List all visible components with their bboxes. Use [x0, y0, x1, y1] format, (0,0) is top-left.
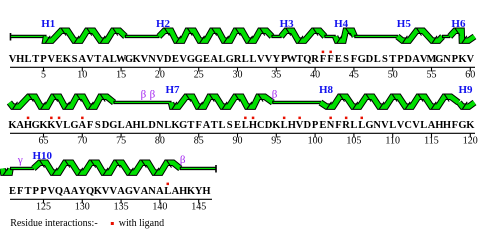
svg-text:β: β [150, 88, 156, 100]
svg-text:β: β [141, 88, 147, 100]
svg-text:with ligand: with ligand [119, 218, 164, 229]
svg-text:VHLTPVEKSAVTALWGKVNVDEVGGEALGR: VHLTPVEKSAVTALWGKVNVDEVGGEALGRLLVVYPWTQR… [9, 54, 475, 65]
svg-text:Residue interactions:-: Residue interactions:- [10, 218, 97, 229]
svg-text:H8: H8 [319, 84, 334, 96]
svg-text:H10: H10 [33, 150, 53, 162]
svg-text:KAHGKKVLGAFSDGLAHLDNLKGTFATLSE: KAHGKKVLGAFSDGLAHLDNLKGTFATLSELHCDKLHVDP… [8, 120, 475, 131]
svg-text:H5: H5 [397, 18, 412, 30]
svg-text:H9: H9 [459, 84, 474, 96]
svg-text:H3: H3 [280, 18, 295, 30]
svg-text:H4: H4 [334, 18, 349, 30]
svg-text:H1: H1 [41, 18, 55, 30]
svg-text:H2: H2 [156, 18, 171, 30]
svg-text:β: β [180, 154, 186, 166]
svg-text:H6: H6 [451, 18, 466, 30]
svg-text:γ: γ [17, 154, 23, 166]
svg-text:β: β [272, 88, 278, 100]
svg-text:H7: H7 [166, 84, 181, 96]
